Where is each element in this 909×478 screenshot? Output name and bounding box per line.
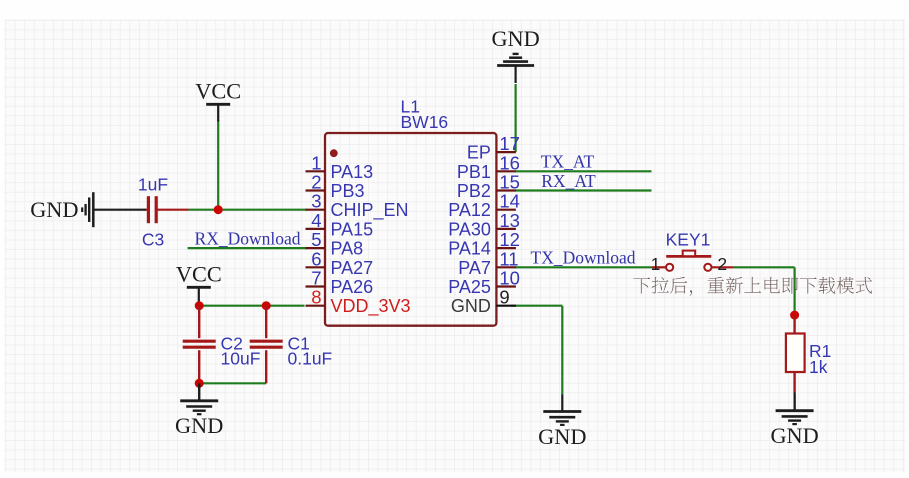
svg-text:4: 4 — [311, 210, 321, 231]
svg-text:14: 14 — [499, 191, 520, 212]
svg-text:10: 10 — [499, 268, 520, 289]
svg-text:GND: GND — [770, 423, 818, 448]
svg-text:VDD_3V3: VDD_3V3 — [331, 296, 411, 317]
svg-text:13: 13 — [499, 210, 520, 231]
svg-text:TX_AT: TX_AT — [541, 151, 595, 171]
svg-text:12: 12 — [499, 229, 520, 250]
svg-text:PA26: PA26 — [331, 277, 374, 297]
svg-text:8: 8 — [311, 287, 321, 308]
svg-text:GND: GND — [451, 296, 491, 316]
svg-text:PA27: PA27 — [331, 258, 374, 278]
svg-text:GND: GND — [491, 26, 539, 51]
svg-text:1k: 1k — [809, 357, 828, 377]
svg-text:GND: GND — [175, 413, 223, 438]
svg-text:KEY1: KEY1 — [666, 230, 711, 250]
svg-text:PA25: PA25 — [448, 277, 491, 297]
svg-text:PA15: PA15 — [331, 219, 374, 239]
svg-text:C3: C3 — [142, 230, 164, 250]
svg-text:1: 1 — [311, 152, 321, 173]
svg-text:PA12: PA12 — [448, 200, 491, 220]
svg-text:VCC: VCC — [195, 78, 241, 103]
svg-text:2: 2 — [311, 172, 321, 193]
svg-text:TX_Download: TX_Download — [531, 247, 636, 267]
svg-text:VCC: VCC — [176, 261, 222, 286]
svg-text:7: 7 — [311, 268, 321, 289]
svg-text:PA30: PA30 — [448, 219, 491, 239]
svg-text:PA13: PA13 — [331, 162, 374, 182]
svg-text:16: 16 — [499, 152, 520, 173]
svg-text:RX_Download: RX_Download — [195, 228, 301, 248]
svg-text:1uF: 1uF — [138, 175, 168, 195]
svg-text:10uF: 10uF — [221, 349, 261, 369]
svg-text:PB1: PB1 — [457, 162, 491, 182]
svg-text:CHIP_EN: CHIP_EN — [331, 200, 409, 221]
svg-text:PB3: PB3 — [331, 181, 365, 201]
svg-text:11: 11 — [499, 248, 518, 269]
svg-text:1: 1 — [651, 254, 661, 274]
svg-text:6: 6 — [311, 248, 321, 269]
svg-text:3: 3 — [311, 191, 321, 212]
svg-text:9: 9 — [499, 287, 509, 308]
svg-text:GND: GND — [30, 197, 78, 222]
svg-text:15: 15 — [499, 172, 520, 193]
svg-text:PA8: PA8 — [331, 239, 364, 259]
svg-text:GND: GND — [538, 424, 586, 449]
svg-text:2: 2 — [717, 254, 727, 274]
svg-text:EP: EP — [467, 143, 491, 163]
svg-text:PB2: PB2 — [457, 181, 491, 201]
svg-text:RX_AT: RX_AT — [541, 171, 596, 191]
svg-text:PA14: PA14 — [448, 239, 491, 259]
svg-text:5: 5 — [311, 229, 321, 250]
svg-text:BW16: BW16 — [401, 112, 449, 132]
svg-text:17: 17 — [499, 133, 520, 154]
svg-text:0.1uF: 0.1uF — [288, 349, 333, 369]
svg-text:PA7: PA7 — [458, 258, 491, 278]
